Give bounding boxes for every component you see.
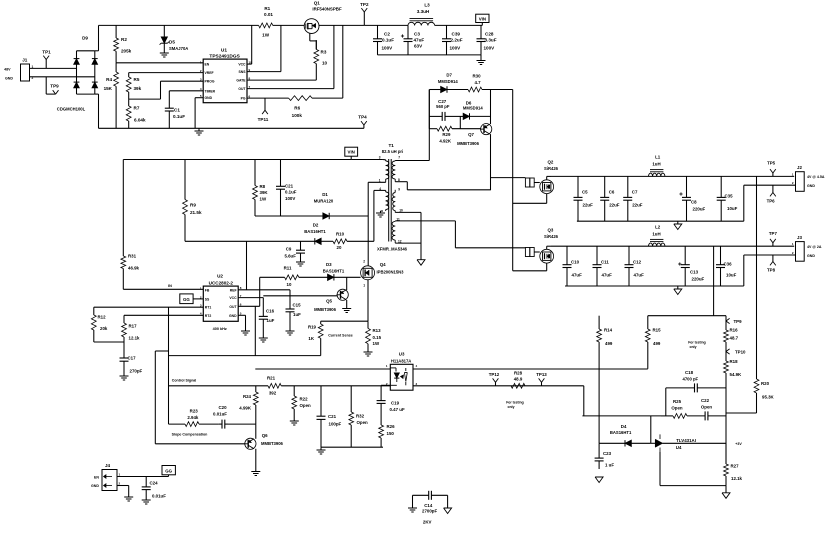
svg-text:C21: C21 bbox=[328, 414, 337, 419]
wire bbox=[454, 221, 456, 248]
wire bbox=[380, 385, 382, 397]
svg-text:0.15: 0.15 bbox=[373, 335, 382, 340]
test point TP9 bbox=[46, 77, 59, 94]
svg-text:OUT: OUT bbox=[238, 87, 246, 91]
wire bbox=[194, 98, 196, 129]
svg-text:2700pF: 2700pF bbox=[422, 508, 437, 513]
svg-text:4700 pF: 4700 pF bbox=[682, 376, 698, 381]
wire bbox=[582, 415, 661, 417]
wire - +4V rail 2 bbox=[551, 245, 794, 247]
wire bbox=[98, 25, 100, 50]
svg-text:XFMR_MA5346: XFMR_MA5346 bbox=[377, 247, 408, 252]
svg-text:D1: D1 bbox=[322, 192, 328, 197]
wire bbox=[98, 94, 100, 128]
capacitor C27 bbox=[429, 90, 458, 121]
svg-text:C14: C14 bbox=[424, 503, 433, 508]
wire bbox=[95, 93, 99, 95]
transformer T1 bbox=[377, 143, 408, 252]
svg-text:D9: D9 bbox=[82, 36, 88, 41]
wire - U2 GND bbox=[238, 314, 245, 316]
svg-text:TP5: TP5 bbox=[767, 161, 776, 166]
wire - J2 pin2 bbox=[744, 184, 796, 186]
wire - FB bbox=[123, 288, 203, 290]
svg-text:C6: C6 bbox=[609, 190, 615, 195]
svg-text:10: 10 bbox=[322, 61, 328, 66]
wire bbox=[342, 25, 344, 98]
ground bbox=[241, 331, 250, 335]
wire bbox=[435, 24, 483, 26]
resistor R31 bbox=[121, 160, 140, 290]
capacitor C21 0.1uF bbox=[276, 160, 297, 217]
svg-text:TP13: TP13 bbox=[536, 372, 547, 377]
svg-text:10uF: 10uF bbox=[726, 273, 737, 278]
capacitor C3 47uF bbox=[401, 25, 425, 55]
svg-text:4.99K: 4.99K bbox=[239, 406, 252, 411]
wire - GND pin bbox=[195, 97, 203, 99]
svg-text:R29: R29 bbox=[442, 132, 451, 137]
svg-text:95.3K: 95.3K bbox=[762, 395, 775, 400]
svg-text:MURA120: MURA120 bbox=[314, 199, 334, 204]
ground bbox=[120, 376, 129, 380]
svg-text:R22: R22 bbox=[300, 397, 309, 402]
wire bbox=[117, 485, 129, 487]
wire bbox=[373, 190, 375, 241]
svg-text:Control Signal: Control Signal bbox=[172, 379, 197, 383]
svg-text:100V: 100V bbox=[285, 196, 295, 201]
svg-text:D5: D5 bbox=[169, 40, 175, 45]
wire - Q7 collector bbox=[490, 90, 492, 125]
svg-text:MMBT3906: MMBT3906 bbox=[261, 441, 284, 446]
svg-text:2.94k: 2.94k bbox=[187, 415, 199, 420]
svg-text:4V @ 2A: 4V @ 2A bbox=[807, 245, 822, 249]
wire - CS row bbox=[169, 355, 321, 357]
svg-text:R27: R27 bbox=[731, 464, 740, 469]
svg-text:D2: D2 bbox=[313, 223, 319, 228]
svg-text:J3: J3 bbox=[797, 235, 802, 240]
wire - Q4 source bbox=[367, 280, 369, 321]
transistor Q7 MMBT3906 bbox=[457, 124, 492, 146]
svg-text:R4: R4 bbox=[106, 77, 112, 82]
svg-text:0.01uF: 0.01uF bbox=[213, 411, 227, 416]
svg-text:R9: R9 bbox=[190, 202, 196, 207]
wire bbox=[254, 306, 256, 355]
ground bbox=[251, 472, 260, 476]
wire bbox=[367, 182, 369, 216]
wire bbox=[383, 159, 386, 161]
wire - VREF bbox=[129, 72, 204, 74]
svg-text:54.9K: 54.9K bbox=[730, 372, 743, 377]
svg-text:39K: 39K bbox=[260, 190, 269, 195]
svg-text:VCC: VCC bbox=[238, 63, 246, 67]
resistor R15 bbox=[645, 316, 661, 369]
transistor Q6 MMBT3906 bbox=[244, 433, 283, 449]
svg-text:T1: T1 bbox=[389, 143, 395, 148]
svg-text:Open: Open bbox=[671, 405, 683, 410]
svg-text:U1: U1 bbox=[221, 48, 227, 54]
resistor R26 bbox=[379, 407, 395, 447]
wire - OUT bbox=[238, 305, 260, 307]
svg-text:TP8: TP8 bbox=[767, 268, 776, 273]
svg-text:499: 499 bbox=[653, 341, 661, 346]
capacitor C16 bbox=[259, 298, 275, 338]
capacitor C10 bbox=[563, 246, 583, 286]
svg-text:C2: C2 bbox=[384, 32, 390, 37]
svg-text:TP9: TP9 bbox=[50, 84, 59, 89]
svg-text:R28: R28 bbox=[514, 370, 523, 375]
wire bbox=[346, 277, 348, 290]
svg-text:J2: J2 bbox=[797, 165, 802, 170]
svg-text:C17: C17 bbox=[128, 356, 137, 361]
wire - Q6 collector bbox=[255, 424, 257, 439]
capacitor C19 bbox=[377, 397, 405, 412]
resistor R2 bbox=[114, 25, 132, 62]
wire - pin10 bbox=[395, 211, 421, 213]
svg-text:SiR426: SiR426 bbox=[544, 234, 559, 239]
ground bbox=[259, 338, 268, 342]
svg-text:C36: C36 bbox=[724, 262, 733, 267]
wire bbox=[128, 486, 130, 498]
wire bbox=[117, 476, 169, 478]
svg-text:C5: C5 bbox=[582, 190, 588, 195]
svg-text:C24: C24 bbox=[150, 481, 159, 486]
resistor R12 bbox=[91, 307, 107, 342]
svg-text:4.92K: 4.92K bbox=[439, 139, 452, 144]
wire - bottom bus bbox=[99, 127, 364, 129]
wire bbox=[659, 452, 661, 486]
wire - Q6 base bbox=[155, 443, 245, 445]
svg-text:2.2uF: 2.2uF bbox=[451, 38, 463, 43]
svg-text:1W: 1W bbox=[260, 197, 267, 202]
wire - SNS bbox=[247, 71, 281, 73]
svg-text:6.04k: 6.04k bbox=[134, 118, 146, 123]
svg-text:100V: 100V bbox=[484, 46, 496, 51]
resistor R16 bbox=[724, 321, 739, 352]
resistor R19 bbox=[308, 321, 323, 355]
svg-text:OUT: OUT bbox=[229, 305, 237, 309]
resistor R24 bbox=[239, 386, 258, 424]
test point TP9 bbox=[726, 316, 742, 324]
node GG bbox=[162, 466, 175, 477]
wire bbox=[333, 25, 335, 88]
svg-text:0.1uF: 0.1uF bbox=[285, 190, 297, 195]
transistor Q5 MMBT3906 bbox=[314, 289, 348, 312]
svg-text:C28: C28 bbox=[485, 32, 494, 37]
svg-text:SNS: SNS bbox=[239, 70, 247, 74]
svg-text:1uF: 1uF bbox=[267, 318, 275, 323]
wire bbox=[407, 189, 490, 191]
wire - cap bus bbox=[378, 54, 482, 56]
wire bbox=[534, 182, 540, 184]
svg-text:205k: 205k bbox=[121, 49, 132, 54]
svg-text:J1: J1 bbox=[22, 58, 28, 63]
wire bbox=[155, 350, 168, 352]
svg-text:only: only bbox=[508, 405, 515, 409]
svg-text:0.47 uF: 0.47 uF bbox=[390, 407, 405, 412]
wire - Q3 gate bbox=[455, 247, 525, 249]
resistor R6 bbox=[289, 96, 343, 118]
svg-text:1: 1 bbox=[363, 283, 365, 287]
ground bbox=[160, 53, 169, 57]
resistor R10 bbox=[333, 231, 374, 249]
capacitor C7 bbox=[623, 176, 643, 221]
ground bbox=[317, 447, 326, 454]
svg-text:1uH: 1uH bbox=[652, 232, 660, 237]
svg-text:only: only bbox=[690, 345, 697, 349]
resistor R11 bbox=[260, 265, 328, 286]
svg-text:22uF: 22uF bbox=[609, 203, 620, 208]
svg-text:U4: U4 bbox=[676, 445, 682, 450]
svg-text:C12: C12 bbox=[633, 260, 642, 265]
svg-text:GG: GG bbox=[183, 297, 190, 302]
svg-text:7: 7 bbox=[398, 156, 400, 160]
svg-text:TP6: TP6 bbox=[767, 199, 776, 204]
svg-text:BAS16HT1: BAS16HT1 bbox=[610, 430, 632, 435]
svg-text:R12: R12 bbox=[98, 315, 107, 320]
capacitor C36 bbox=[716, 246, 737, 286]
wire - PROG bbox=[161, 80, 204, 82]
wire - Q3 source bbox=[546, 263, 548, 271]
svg-text:R32: R32 bbox=[356, 414, 365, 419]
wire bbox=[30, 67, 78, 69]
svg-text:100pF: 100pF bbox=[329, 422, 342, 427]
wire bbox=[513, 202, 547, 204]
svg-text:R6: R6 bbox=[294, 106, 300, 111]
svg-text:63V: 63V bbox=[414, 44, 423, 49]
wire bbox=[534, 251, 540, 253]
inductor L3 bbox=[408, 3, 435, 26]
svg-text:C10: C10 bbox=[571, 260, 580, 265]
wire - J3 pin2 bbox=[744, 254, 796, 256]
svg-text:C21: C21 bbox=[285, 184, 294, 189]
svg-text:Slope Compensation: Slope Compensation bbox=[172, 433, 208, 437]
svg-text:1W: 1W bbox=[262, 33, 270, 38]
resistor R30 bbox=[468, 74, 513, 92]
svg-text:Q1: Q1 bbox=[314, 1, 321, 6]
svg-text:L3: L3 bbox=[424, 3, 430, 8]
capacitor C21 100pF bbox=[317, 386, 342, 447]
svg-text:10uF: 10uF bbox=[727, 206, 738, 211]
wire - current sense bbox=[321, 320, 368, 322]
svg-text:PROG: PROG bbox=[205, 80, 215, 84]
resistor R3 bbox=[314, 40, 328, 80]
resistor R28 bbox=[511, 370, 525, 388]
svg-text:MMSD914: MMSD914 bbox=[438, 79, 458, 84]
svg-text:TP4: TP4 bbox=[358, 115, 367, 120]
svg-text:VIN: VIN bbox=[348, 150, 355, 155]
wire bbox=[95, 50, 99, 52]
wire bbox=[406, 182, 408, 190]
svg-text:1K: 1K bbox=[308, 336, 314, 341]
diode D1 MURA120 bbox=[255, 192, 368, 219]
svg-text:GND: GND bbox=[91, 484, 99, 488]
svg-text:C19: C19 bbox=[391, 401, 400, 406]
svg-text:TP1: TP1 bbox=[42, 50, 51, 55]
resistor R17 bbox=[122, 315, 140, 342]
svg-text:C7: C7 bbox=[632, 190, 638, 195]
wire - comp row bbox=[169, 385, 269, 387]
svg-text:20k: 20k bbox=[100, 326, 108, 331]
svg-text:C35: C35 bbox=[725, 194, 734, 199]
diode D4 BAS16HT1 bbox=[610, 424, 651, 447]
svg-text:TPS2491DGS: TPS2491DGS bbox=[209, 54, 240, 60]
ground bbox=[417, 260, 425, 266]
svg-text:TP9: TP9 bbox=[734, 319, 743, 324]
wire - VCC bbox=[238, 297, 263, 299]
diode bridge D9 bbox=[57, 36, 98, 112]
svg-text:R21: R21 bbox=[267, 375, 276, 380]
svg-text:150: 150 bbox=[387, 431, 395, 436]
svg-text:GND: GND bbox=[807, 184, 815, 188]
svg-text:GND: GND bbox=[807, 254, 815, 258]
svg-text:D7: D7 bbox=[446, 73, 452, 78]
resistor R27 bbox=[724, 443, 743, 485]
svg-text:0.01uF: 0.01uF bbox=[152, 494, 166, 499]
wire bbox=[660, 485, 726, 487]
wire - GATE bbox=[247, 79, 316, 81]
svg-text:R11: R11 bbox=[284, 265, 292, 270]
capacitor C12 bbox=[625, 246, 645, 286]
svg-text:Q7: Q7 bbox=[468, 132, 474, 137]
svg-text:TP12: TP12 bbox=[489, 372, 500, 377]
svg-text:VCC: VCC bbox=[229, 296, 237, 300]
svg-text:R7: R7 bbox=[134, 106, 140, 111]
svg-text:47uF: 47uF bbox=[634, 273, 645, 278]
capacitor C17 bbox=[120, 342, 143, 376]
wire bbox=[428, 90, 430, 161]
svg-text:+3V: +3V bbox=[735, 442, 742, 446]
svg-text:REF: REF bbox=[230, 288, 237, 292]
inductor L1 bbox=[649, 155, 665, 177]
svg-text:GND: GND bbox=[229, 314, 237, 318]
wire bbox=[129, 98, 161, 100]
svg-text:1uH: 1uH bbox=[652, 162, 660, 167]
svg-text:R25: R25 bbox=[673, 399, 682, 404]
wire - gate drive vertical bbox=[512, 90, 514, 271]
capacitor C1 bbox=[165, 91, 185, 129]
svg-text:GND: GND bbox=[205, 96, 213, 100]
ground bbox=[408, 508, 417, 512]
svg-text:Q2: Q2 bbox=[547, 160, 553, 165]
svg-text:TP2: TP2 bbox=[360, 2, 369, 7]
svg-text:47uF: 47uF bbox=[414, 38, 425, 43]
svg-text:GATE: GATE bbox=[236, 79, 246, 83]
wire bbox=[364, 24, 408, 26]
wire - Q6 emitter bbox=[255, 449, 257, 472]
capacitor C9 bbox=[284, 241, 305, 262]
wire bbox=[599, 442, 625, 444]
svg-text:C13: C13 bbox=[690, 270, 699, 275]
svg-text:100k: 100k bbox=[292, 113, 303, 118]
svg-text:220uF: 220uF bbox=[693, 207, 706, 212]
svg-text:C22: C22 bbox=[701, 398, 710, 403]
svg-text:C8: C8 bbox=[691, 200, 697, 205]
test point TP11 bbox=[258, 98, 269, 122]
ground bbox=[595, 477, 603, 483]
resistor R13 bbox=[366, 321, 382, 352]
svg-text:12.1k: 12.1k bbox=[731, 476, 743, 481]
node GG bbox=[180, 294, 204, 304]
svg-text:400 kHz: 400 kHz bbox=[213, 327, 227, 331]
svg-text:10: 10 bbox=[287, 282, 292, 287]
resistor R21 bbox=[267, 375, 390, 395]
wire bbox=[547, 245, 551, 247]
svg-text:EN: EN bbox=[94, 476, 99, 480]
capacitor C13 220uF bbox=[678, 246, 704, 286]
svg-text:R26: R26 bbox=[387, 424, 396, 429]
wire bbox=[713, 246, 715, 316]
wire bbox=[319, 24, 364, 26]
svg-text:L2: L2 bbox=[655, 225, 661, 230]
svg-text:0.1uF: 0.1uF bbox=[173, 114, 185, 119]
resistor R4 bbox=[104, 63, 119, 129]
svg-text:L1: L1 bbox=[655, 155, 661, 160]
op-amp U4 TLV431AI bbox=[651, 434, 726, 452]
diode D7 MMSD914 bbox=[429, 73, 468, 93]
wire - Q3 drain bbox=[546, 246, 548, 249]
wire bbox=[513, 270, 547, 272]
resistor R29 bbox=[429, 116, 480, 143]
transistor Q2 SiR426 bbox=[540, 160, 559, 194]
svg-text:220uF: 220uF bbox=[692, 277, 705, 282]
capacitor C14 bbox=[413, 491, 448, 525]
svg-text:48.9: 48.9 bbox=[514, 377, 523, 382]
svg-text:TP10: TP10 bbox=[735, 350, 746, 355]
svg-text:MMBT3906: MMBT3906 bbox=[314, 307, 337, 312]
svg-text:5.6uF: 5.6uF bbox=[284, 254, 296, 259]
svg-text:3.3uH: 3.3uH bbox=[417, 9, 430, 14]
svg-text:1W: 1W bbox=[373, 341, 380, 346]
svg-text:Current Sense: Current Sense bbox=[328, 333, 353, 337]
diode D2 BAS16HT1 bbox=[185, 223, 333, 245]
transistor Q4 IPB200N15N3 bbox=[361, 259, 405, 287]
wire - pin1 bbox=[368, 181, 386, 183]
svg-text:D3: D3 bbox=[326, 262, 332, 267]
ground bbox=[444, 508, 452, 514]
wire bbox=[743, 255, 745, 286]
svg-text:R31: R31 bbox=[128, 254, 137, 259]
test point TP13 bbox=[536, 372, 547, 386]
svg-text:1 uF: 1 uF bbox=[605, 463, 614, 468]
svg-text:H11A817A: H11A817A bbox=[391, 358, 412, 363]
wire - RT1 bbox=[94, 306, 204, 308]
svg-text:Open: Open bbox=[701, 405, 713, 410]
wire - opto emitter row bbox=[413, 385, 584, 387]
wire - OUT bbox=[247, 88, 334, 90]
test point TP2 bbox=[360, 2, 369, 25]
zener D5 bbox=[160, 25, 189, 53]
ground bbox=[296, 262, 305, 266]
svg-text:R23: R23 bbox=[190, 409, 199, 414]
wire - +4V rail 1 bbox=[551, 175, 794, 177]
wire - input rail bbox=[99, 24, 259, 26]
svg-text:R13: R13 bbox=[373, 328, 382, 333]
svg-text:47uF: 47uF bbox=[572, 273, 583, 278]
test point TP10 bbox=[726, 349, 746, 355]
svg-text:C11: C11 bbox=[601, 260, 609, 265]
resistor R25 bbox=[661, 399, 687, 418]
wire - T1 pin7 bbox=[395, 160, 429, 162]
svg-text:22uF: 22uF bbox=[632, 203, 643, 208]
diode D6 MMSD914 bbox=[458, 100, 491, 119]
ground bbox=[342, 300, 351, 313]
svg-text:C1: C1 bbox=[174, 108, 180, 113]
resistor R18 bbox=[724, 352, 742, 465]
op-amp U2 UCC2802-2 bbox=[200, 274, 242, 332]
svg-text:TP11: TP11 bbox=[258, 117, 269, 122]
svg-text:0.01: 0.01 bbox=[264, 12, 273, 17]
svg-text:R5: R5 bbox=[134, 77, 140, 82]
svg-text:R10: R10 bbox=[336, 231, 345, 236]
